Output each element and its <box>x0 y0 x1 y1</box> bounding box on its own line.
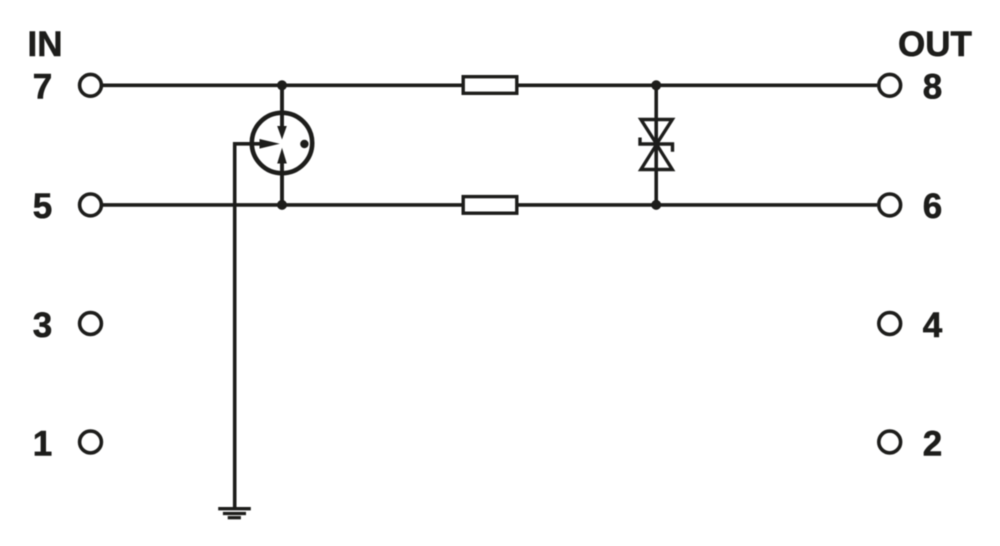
ground symbol <box>218 509 251 518</box>
svg-text:6: 6 <box>923 187 942 226</box>
svg-text:1: 1 <box>33 424 52 463</box>
gas discharge tube electrode arrow up <box>277 148 287 164</box>
wire gas tube left stub <box>235 144 263 509</box>
wire top line terminal 7 to terminal 8 <box>102 84 878 88</box>
svg-text:3: 3 <box>33 306 52 345</box>
terminal circle 7 <box>80 74 102 96</box>
svg-text:5: 5 <box>33 187 52 226</box>
wire gas tube bottom lead to node on line 5 <box>280 161 284 205</box>
gas discharge tube electrode arrow right from ground <box>260 139 280 149</box>
svg-text:IN: IN <box>28 25 63 64</box>
suppressor diode V1 lower triangle <box>641 144 672 169</box>
gas discharge tube electrode arrow down <box>277 126 287 140</box>
node junction dot on line 5 at suppressor diode <box>651 200 661 210</box>
svg-text:7: 7 <box>33 67 52 106</box>
svg-text:4: 4 <box>923 306 943 345</box>
terminal circle 8 <box>879 74 901 96</box>
gas discharge tube gas-filled indicator dot <box>300 140 308 148</box>
node junction dot on line 7 at gas tube <box>277 80 287 90</box>
terminal circle 1 <box>80 431 102 453</box>
resistor R2 in line 5-6 <box>463 197 517 214</box>
resistor R1 in line 7-8 <box>463 77 517 94</box>
suppressor diode V1 zener bar <box>640 138 673 152</box>
svg-text:8: 8 <box>923 67 942 106</box>
gas discharge tube F1 circle <box>252 113 312 173</box>
terminal circle 6 <box>879 194 901 216</box>
svg-text:OUT: OUT <box>898 25 972 64</box>
terminal circle 5 <box>80 194 102 216</box>
wire suppressor diode branch <box>654 85 658 205</box>
terminal circle 4 <box>879 313 901 335</box>
wire gas tube top lead from node on line 7 <box>280 85 284 128</box>
wire second line terminal 5 to terminal 6 <box>102 203 878 207</box>
svg-text:2: 2 <box>923 424 942 463</box>
suppressor diode V1 upper triangle <box>641 120 672 145</box>
terminal circle 2 <box>879 431 901 453</box>
node junction dot on line 7 at suppressor diode <box>651 80 661 90</box>
node junction dot on line 5 at gas tube <box>277 200 287 210</box>
terminal circle 3 <box>80 313 102 335</box>
